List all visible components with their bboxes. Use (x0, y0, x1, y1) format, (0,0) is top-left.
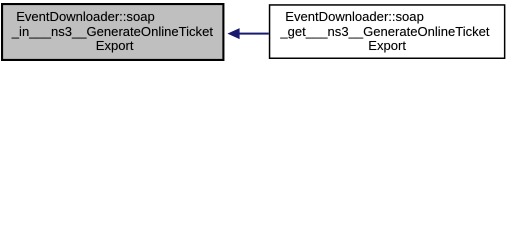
label: right node line 3 (368, 39, 406, 53)
wire: call edge shaft (midnightblue) (239, 33, 269, 35)
label: left node line 3 (96, 39, 134, 53)
label: left node line 2 (12, 25, 213, 39)
label: right node line 1 (285, 10, 424, 24)
label: right node line 2 (280, 25, 489, 39)
arrowhead pointing at current node (227, 28, 239, 39)
node box: EventDownloader::soap_get___ns3__GenerateOnlineTicketExport (caller node, white) (270, 5, 505, 58)
label: left node line 1 (16, 10, 155, 24)
node box: EventDownloader::soap_in___ns3__GenerateOnlineTicketExport (current node, grey filled) (2, 4, 223, 60)
